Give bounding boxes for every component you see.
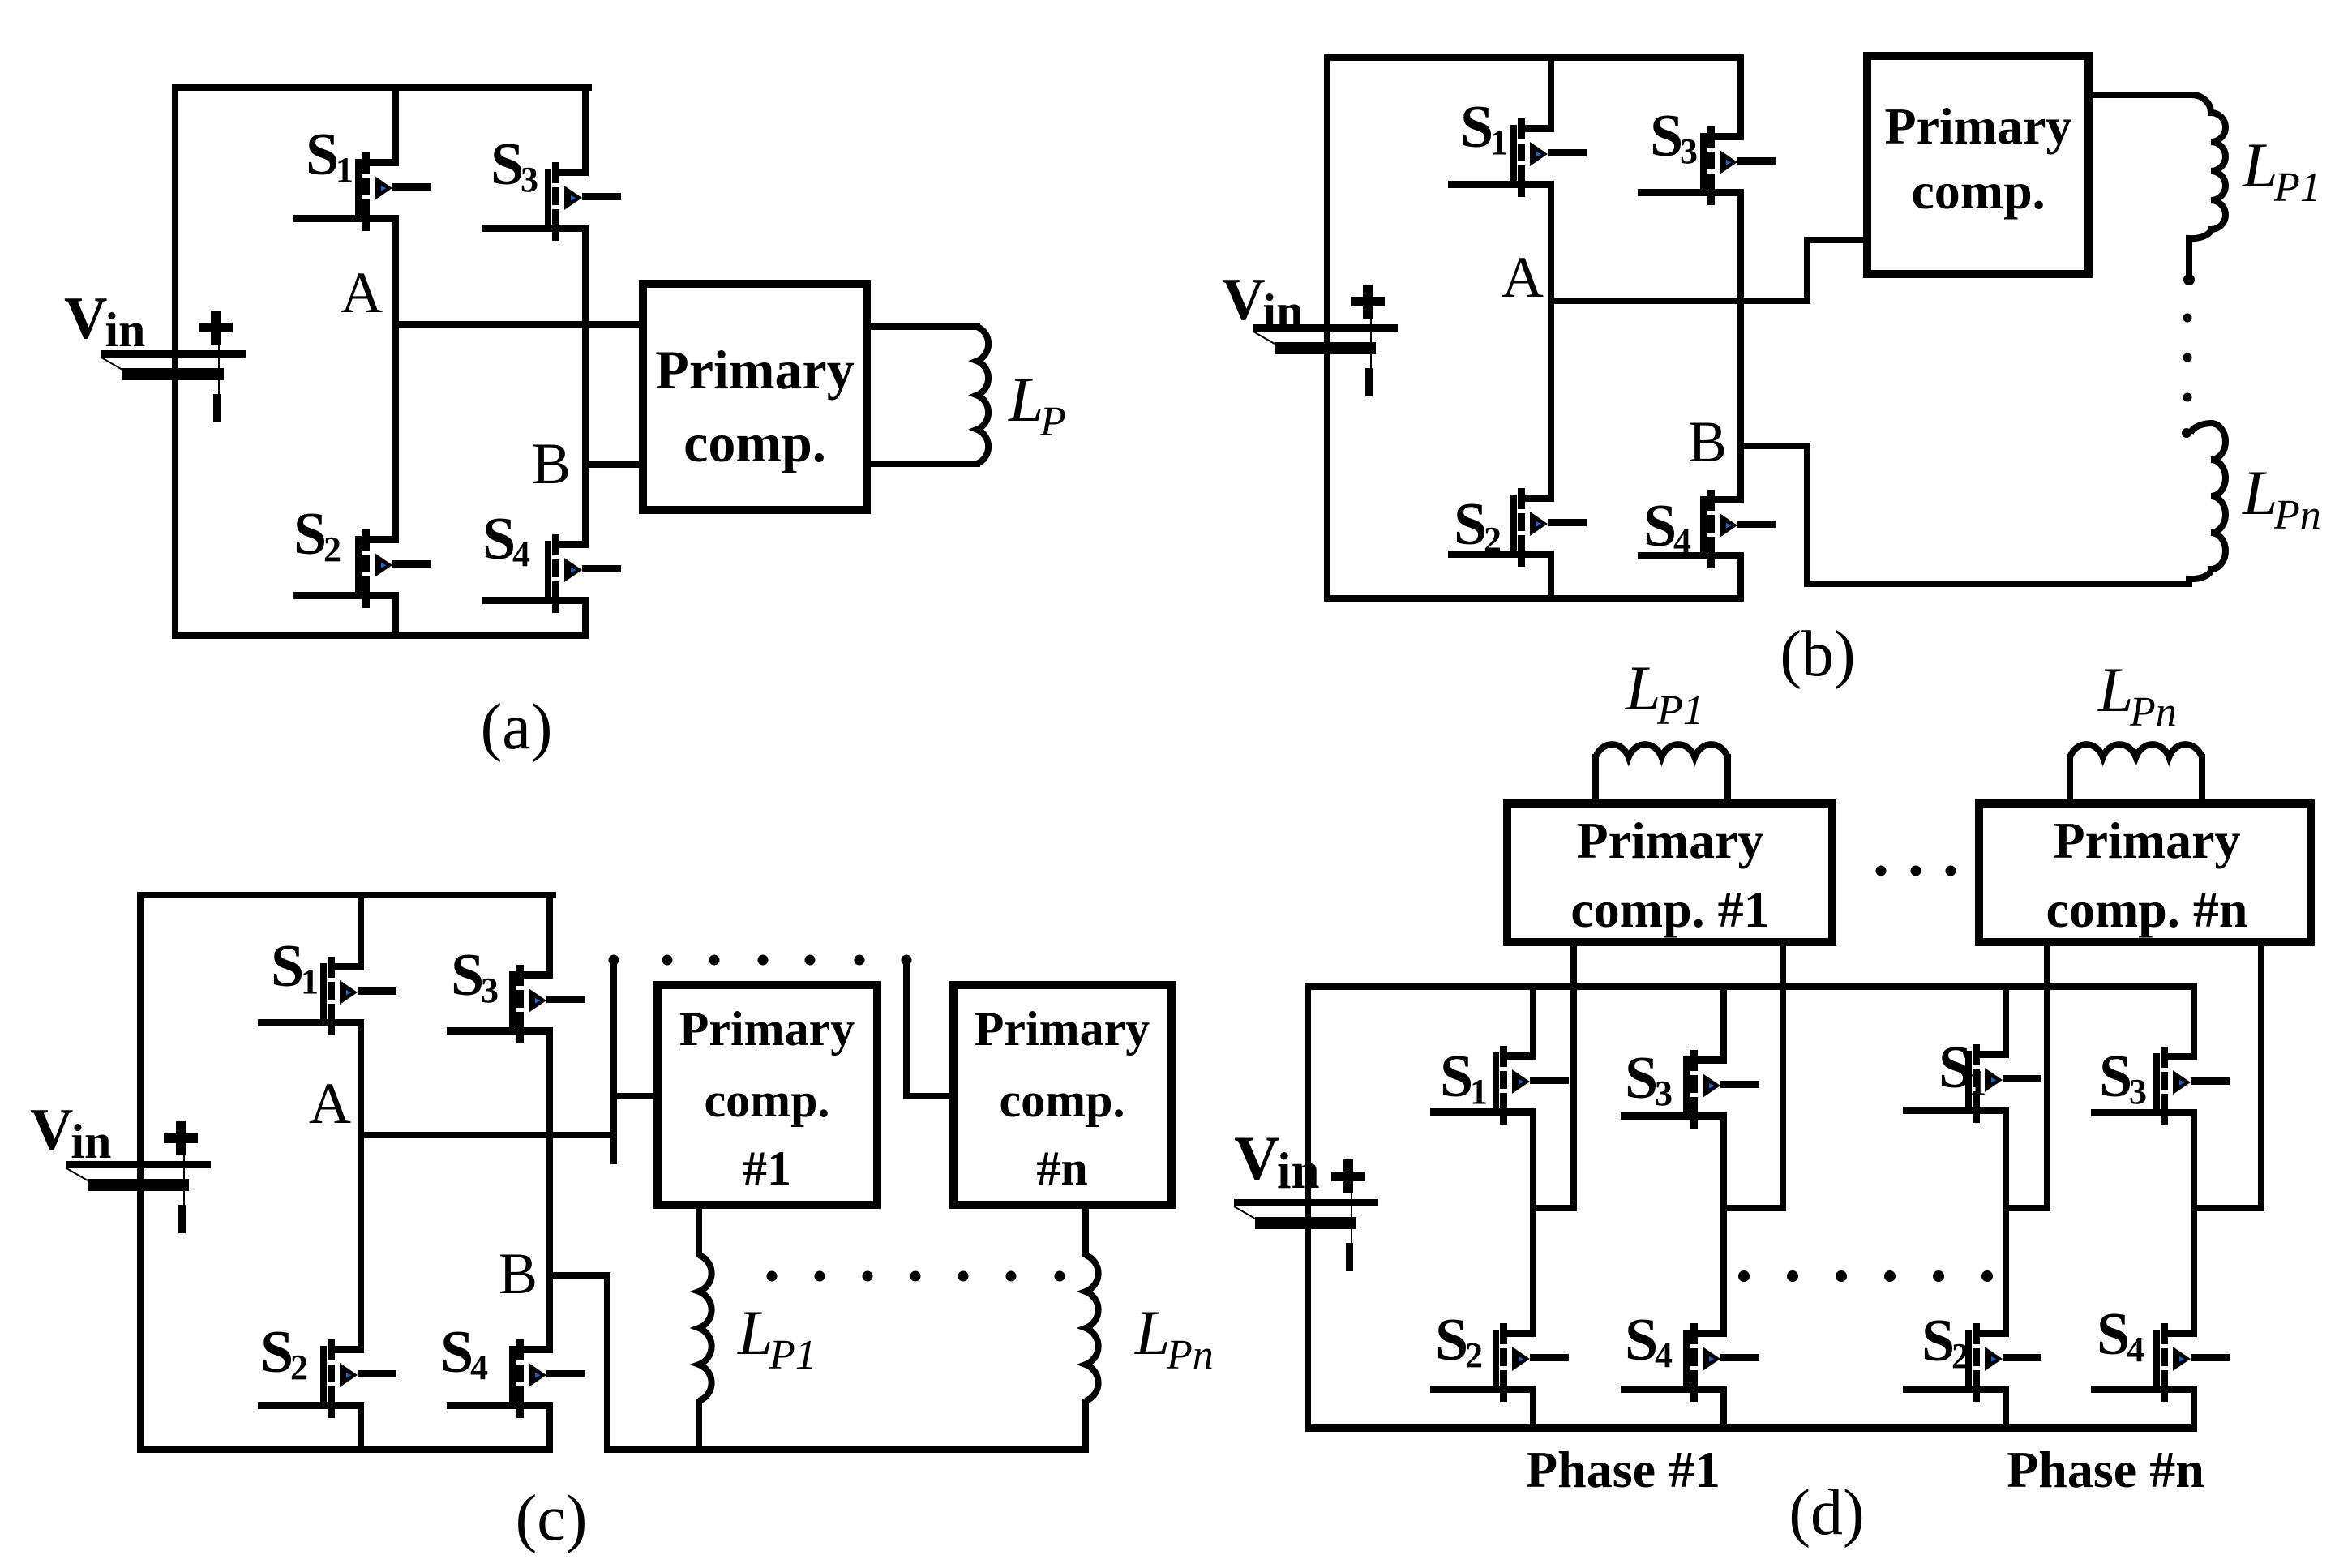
svg-text:Primary: Primary (1885, 97, 2072, 155)
junction dot LP1 bottom (b) (2183, 274, 2195, 285)
junction dot A bus (c) (609, 955, 619, 966)
label LPn (c) (1134, 1297, 1214, 1378)
label S3 (c) (451, 942, 499, 1010)
ellipsis dots top (c) (662, 955, 865, 966)
svg-text:Primary: Primary (2054, 812, 2241, 869)
svg-text:2: 2 (1465, 1335, 1483, 1375)
transistor S4 (b) (1638, 490, 1776, 568)
svg-text:S: S (1454, 491, 1487, 558)
junction dot hook n (c) (902, 955, 912, 966)
svg-text:S: S (482, 506, 516, 572)
inductor LP (a) (977, 327, 988, 464)
svg-text:L: L (2097, 654, 2133, 725)
wire S4 source (c) (546, 1402, 553, 1446)
label Vin (a) (64, 285, 145, 357)
transistor S2 (d#1) (1430, 1323, 1569, 1402)
svg-text:comp.: comp. (705, 1073, 830, 1127)
wire bottom rail (a) (172, 632, 589, 639)
wire S2 source (d#1) (1530, 1386, 1536, 1424)
block Primary comp. #1 (c) (658, 985, 877, 1205)
block Primary comp. #n (d) (1979, 803, 2311, 942)
svg-text:B: B (1688, 409, 1727, 474)
inductor LP1 (d) (1596, 744, 1728, 757)
battery Vin (b) (1253, 285, 1398, 396)
label LP1 (b) (2242, 130, 2321, 211)
wire LPn leads (d) (2067, 754, 2205, 803)
svg-text:Primary: Primary (655, 339, 854, 401)
label S1 (d#n) (1939, 1035, 1986, 1103)
svg-text:P1: P1 (1656, 688, 1704, 734)
node B leg (c) (546, 1027, 553, 1353)
svg-text:comp.: comp. (1911, 162, 2045, 220)
inductor LPn (d) (2070, 744, 2202, 757)
svg-text:S: S (1625, 1045, 1658, 1112)
wire S3 drain (d#1) (1720, 990, 1727, 1064)
svg-text:comp.: comp. (683, 412, 826, 473)
label S4 (b) (1643, 493, 1691, 561)
wire box to LP1 (b) (2089, 92, 2195, 98)
label S4 (a) (482, 506, 530, 574)
svg-text:1: 1 (1490, 122, 1508, 162)
wire top rail (d) (1305, 983, 2197, 990)
transistor S2 (a) (293, 529, 431, 608)
transistor S2 (d#n) (1903, 1323, 2041, 1402)
node A leg (c) (358, 1019, 364, 1353)
svg-text:3: 3 (481, 970, 499, 1010)
node B leg (d#n) (2191, 1109, 2197, 1337)
inductor LPn (c) (1086, 1255, 1099, 1401)
svg-text:V: V (64, 285, 107, 352)
wire S1 drain (d#n) (2003, 990, 2009, 1058)
svg-text:Pn: Pn (2129, 689, 2177, 735)
wire box to LP top (a) (867, 323, 980, 330)
label S4 (c) (440, 1319, 488, 1387)
wire boxn left lead (d) (2003, 946, 2050, 1211)
svg-text:B: B (532, 431, 571, 496)
wire S1 drain (c) (358, 892, 364, 970)
wire S2 source (b) (1548, 551, 1554, 602)
label LPn (b) (2242, 457, 2321, 538)
label S3 (a) (491, 131, 538, 199)
node A leg (d#n) (2003, 1107, 2009, 1337)
wire LP1 leads (d) (1592, 754, 1731, 803)
svg-text:4: 4 (512, 534, 530, 574)
battery Vin (d) (1234, 1159, 1378, 1271)
svg-text:3: 3 (521, 160, 538, 199)
wire S1 drain (d#1) (1530, 990, 1536, 1060)
wire left rail (c) (137, 892, 144, 1453)
svg-text:Primary: Primary (1577, 812, 1764, 869)
label LP (a) (1008, 364, 1066, 445)
node A leg (d#1) (1530, 1108, 1536, 1337)
svg-text:in: in (71, 1115, 111, 1168)
svg-text:comp. #n: comp. #n (2046, 880, 2248, 938)
svg-text:S: S (271, 933, 304, 1000)
svg-text:Pn: Pn (1166, 1332, 1214, 1378)
ellipsis dots (b) (2182, 314, 2192, 439)
svg-text:S: S (2099, 1043, 2132, 1110)
label LP1 (d) (1625, 653, 1704, 734)
wire box1 left lead (d) (1530, 946, 1577, 1211)
ellipsis dots mid (d) (1738, 1270, 1993, 1282)
node B leg (b) (1737, 189, 1744, 503)
label S3 (d#1) (1625, 1045, 1673, 1113)
battery Vin (c) (66, 1121, 211, 1233)
wire bottom bus (c) (604, 1446, 1089, 1453)
svg-text:S: S (440, 1319, 473, 1386)
wire box1 to LP1 (c) (696, 1209, 702, 1257)
transistor S1 (c) (258, 957, 396, 1035)
block Primary comp. (b) (1867, 56, 2089, 274)
svg-text:L: L (1625, 653, 1660, 723)
svg-text:Primary: Primary (679, 1002, 855, 1056)
wire boxn right lead (d) (2191, 946, 2264, 1211)
label S4 (d#1) (1625, 1307, 1673, 1375)
block Primary comp. (a) (643, 284, 867, 510)
svg-text:4: 4 (2127, 1330, 2144, 1369)
svg-text:A: A (309, 1071, 351, 1136)
label S2 (d#n) (1921, 1308, 1969, 1376)
svg-text:A: A (1502, 245, 1544, 310)
transistor S4 (c) (447, 1339, 585, 1418)
node A leg (b) (1548, 181, 1554, 502)
wire left rail (a) (172, 84, 178, 639)
svg-text:3: 3 (1680, 131, 1698, 171)
transistor S3 (b) (1638, 126, 1776, 205)
label LPn (d) (2097, 654, 2177, 735)
inductor LP1 (b) (2189, 95, 2226, 276)
ellipsis dots boxes (d) (1876, 866, 1956, 876)
wire top rail (b) (1324, 54, 1744, 61)
wire bottom rail (b) (1324, 595, 1744, 602)
wire bottom return (b) (1804, 581, 2192, 587)
svg-text:L: L (2242, 457, 2277, 528)
transistor S1 (b) (1448, 118, 1587, 197)
wire S1 drain (a) (392, 84, 399, 166)
svg-text:S: S (1650, 103, 1683, 169)
label S1 (a) (306, 122, 353, 190)
label Vin (c) (30, 1097, 111, 1168)
wire node B step (b) (1737, 443, 1810, 587)
svg-text:S: S (1435, 1307, 1468, 1373)
wire LPn to bus (c) (1082, 1399, 1089, 1450)
svg-text:(d): (d) (1789, 1477, 1864, 1549)
wire S2 source (c) (358, 1402, 364, 1446)
label S2 (d#1) (1435, 1307, 1483, 1375)
wire node B down (c) (546, 1272, 610, 1453)
label LP1 (c) (737, 1297, 816, 1378)
transistor S3 (d#1) (1621, 1050, 1759, 1129)
svg-text:P1: P1 (2273, 165, 2321, 211)
svg-text:Pn: Pn (2273, 492, 2321, 538)
block Primary comp. #n (c) (953, 985, 1172, 1205)
svg-text:L: L (1134, 1297, 1170, 1368)
wire S4 source (b) (1737, 552, 1744, 602)
transistor S1 (d#n) (1903, 1044, 2041, 1123)
svg-text:S: S (306, 122, 339, 188)
svg-text:Primary: Primary (975, 1002, 1150, 1056)
wire box to LP bottom (a) (867, 461, 980, 467)
svg-text:L: L (2242, 130, 2277, 200)
wire node A bus (c) (358, 960, 658, 1164)
svg-text:S: S (1460, 94, 1493, 161)
svg-text:Phase #1: Phase #1 (1526, 1441, 1720, 1498)
svg-text:V: V (30, 1097, 73, 1163)
svg-text:1: 1 (1470, 1072, 1488, 1112)
label S3 (d#n) (2099, 1043, 2147, 1112)
wire hook to box n (c) (903, 960, 953, 1099)
inductor LPn (b) (2189, 423, 2226, 585)
label S2 (b) (1454, 491, 1502, 559)
node A leg (a) (392, 215, 399, 543)
svg-text:V: V (1234, 1123, 1279, 1193)
label S1 (c) (271, 933, 319, 1001)
transistor S4 (a) (482, 534, 621, 613)
transistor S4 (d#n) (2091, 1323, 2230, 1402)
wire top rail (a) (172, 84, 592, 91)
svg-text:L: L (1008, 364, 1043, 435)
wire bottom rail (c) (137, 1446, 553, 1453)
block Primary comp. #1 (d) (1507, 803, 1832, 942)
svg-text:S: S (1643, 493, 1677, 559)
wire boxn to LPn (c) (1082, 1209, 1089, 1257)
node B leg (a) (582, 225, 589, 548)
svg-text:S: S (1921, 1308, 1955, 1374)
transistor S3 (c) (447, 965, 585, 1043)
svg-text:P1: P1 (769, 1332, 816, 1378)
svg-text:S: S (1625, 1307, 1658, 1373)
wire S2 source (d#n) (2003, 1386, 2009, 1424)
svg-text:Phase #n: Phase #n (2007, 1441, 2204, 1498)
svg-text:(a): (a) (481, 692, 553, 763)
svg-text:L: L (737, 1297, 773, 1368)
ellipsis dots mid (c) (767, 1271, 1065, 1282)
transistor S2 (c) (258, 1339, 396, 1418)
wire S3 drain (b) (1737, 54, 1744, 140)
wire S4 source (d#n) (2191, 1386, 2197, 1424)
svg-text:(c): (c) (516, 1483, 588, 1554)
wire box1 right lead (d) (1724, 946, 1786, 1211)
label Vin (b) (1222, 267, 1303, 338)
svg-text:S: S (491, 131, 524, 198)
transistor S4 (d#1) (1621, 1323, 1759, 1402)
svg-text:S: S (451, 942, 484, 1009)
svg-text:P: P (1039, 399, 1066, 445)
svg-text:2: 2 (323, 529, 341, 569)
wire node A to box (a) (392, 321, 644, 328)
wire node B to box (a) (582, 461, 647, 468)
wire bottom rail (d) (1305, 1424, 2197, 1432)
label S1 (b) (1460, 94, 1508, 162)
svg-text:3: 3 (2129, 1072, 2147, 1112)
svg-text:4: 4 (1655, 1335, 1673, 1375)
svg-text:V: V (1222, 267, 1265, 333)
wire S3 drain (a) (582, 84, 589, 176)
inductor LP1 (c) (699, 1255, 712, 1401)
transistor S2 (b) (1448, 488, 1587, 567)
svg-text:S: S (2097, 1301, 2130, 1368)
wire S3 drain (d#n) (2191, 990, 2197, 1060)
svg-text:comp. #1: comp. #1 (1570, 880, 1769, 938)
svg-text:1: 1 (301, 962, 319, 1001)
battery Vin (a) (101, 311, 246, 422)
wire S1 drain (b) (1548, 54, 1554, 132)
svg-text:2: 2 (290, 1347, 308, 1387)
label Vin (d) (1234, 1123, 1320, 1199)
wire left rail (d) (1305, 983, 1311, 1431)
svg-text:comp.: comp. (1000, 1073, 1125, 1127)
wire S2 source (a) (392, 592, 399, 639)
transistor S1 (a) (293, 152, 431, 231)
svg-text:S: S (1440, 1043, 1473, 1110)
svg-text:B: B (499, 1241, 538, 1306)
svg-text:4: 4 (470, 1347, 488, 1387)
transistor S3 (a) (482, 162, 621, 241)
svg-text:S: S (293, 501, 327, 568)
wire S4 source (a) (582, 597, 589, 639)
svg-text:S: S (260, 1319, 293, 1386)
node B leg (d#1) (1720, 1112, 1727, 1337)
label S1 (d#1) (1440, 1043, 1488, 1112)
svg-text:A: A (341, 260, 383, 325)
svg-text:#1: #1 (743, 1142, 791, 1195)
transistor S3 (d#n) (2091, 1047, 2230, 1125)
wire S3 drain (c) (546, 892, 553, 979)
label S4 (d#n) (2097, 1301, 2144, 1369)
wire LP1 to bus (c) (696, 1399, 702, 1450)
svg-text:1: 1 (336, 150, 353, 190)
transistor S1 (d#1) (1430, 1046, 1569, 1125)
svg-text:in: in (105, 303, 145, 357)
wire left rail (b) (1324, 54, 1330, 602)
svg-text:#n: #n (1036, 1142, 1087, 1195)
label S2 (a) (293, 501, 341, 569)
label S3 (b) (1650, 103, 1698, 171)
label S2 (c) (260, 1319, 308, 1387)
wire top rail (c) (137, 892, 556, 898)
svg-text:(b): (b) (1780, 619, 1855, 690)
wire node A to box (b) (1548, 237, 1867, 304)
svg-text:in: in (1277, 1142, 1320, 1199)
wire S4 source (d#1) (1720, 1386, 1727, 1424)
svg-text:3: 3 (1655, 1073, 1673, 1113)
